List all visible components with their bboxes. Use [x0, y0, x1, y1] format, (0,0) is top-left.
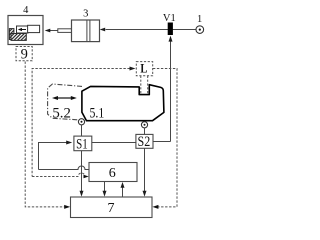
box S1 [74, 136, 92, 151]
svg-text:S1: S1 [76, 137, 88, 153]
wire S1 down to box 7 with arrow [80, 151, 84, 197]
box 9 (dashed) [16, 47, 32, 61]
double-headed motion arrow [52, 96, 77, 100]
dashed wire trunk: corner at (32,68) to L-box arrow and down to box 6 [32, 67, 135, 177]
dashed wire into box 6 left (with hop over S1 line) [32, 173, 89, 178]
dashed channel from L down into die slot [141, 76, 148, 95]
piston rod of cylinder 3 [58, 29, 72, 33]
box 6 [89, 163, 137, 182]
svg-text:3: 3 [83, 8, 88, 19]
arrow into cylinder 3 from line [100, 28, 106, 32]
port 1 circle [196, 26, 204, 34]
wire S2 down to box 7 with arrow [143, 148, 147, 196]
wire sensor left to S1 [81, 125, 83, 136]
box 7 [71, 197, 153, 218]
box 4 (drive unit) [8, 16, 43, 45]
main line from cylinder to port 1 [106, 29, 197, 31]
wire 6 down to 7 with arrow [103, 182, 107, 197]
box S2 [136, 134, 153, 148]
svg-text:6: 6 [109, 166, 116, 181]
svg-text:4: 4 [23, 5, 29, 16]
feedback wire from box 6 left up to S1 with arrow into S1 [39, 141, 90, 170]
wire 7 up to 6 with arrow [121, 182, 125, 197]
wire sensor right to S2 [144, 128, 146, 134]
svg-text:1: 1 [197, 14, 202, 25]
wire S2 up to valve V1 with up arrowhead [153, 36, 173, 142]
svg-text:V1: V1 [163, 13, 176, 24]
svg-text:L: L [140, 60, 147, 75]
cylinder 3 body [72, 20, 100, 42]
wire S1 to S2 [92, 142, 137, 144]
svg-text:S2: S2 [138, 134, 151, 150]
dashed wire from 9 down to box 7 left with arrow [25, 62, 70, 209]
valve V1 (black block) [168, 23, 173, 36]
right rect inside 4 [28, 25, 40, 32]
svg-text:5.2: 5.2 [52, 105, 71, 121]
piston lines in cylinder 3 [87, 20, 90, 42]
svg-text:7: 7 [108, 201, 115, 216]
sensor circle left (at 5.1) [78, 119, 84, 125]
phantom position 5.2 (dash-dot outline) [48, 84, 82, 120]
svg-text:9: 9 [21, 46, 28, 62]
small actuator rect with arrow inside 4 [17, 26, 29, 33]
sensor circle right (at S2) [141, 122, 147, 128]
hatched block inside 4 [9, 29, 26, 41]
svg-text:5.1: 5.1 [90, 105, 105, 121]
die 5.1 (solid polygon with slot) [82, 85, 164, 121]
dashed wire from L right to box 7 right with arrow [152, 69, 177, 209]
L box (dashed) [136, 62, 152, 76]
arrow into box 4 from rod [45, 29, 58, 33]
